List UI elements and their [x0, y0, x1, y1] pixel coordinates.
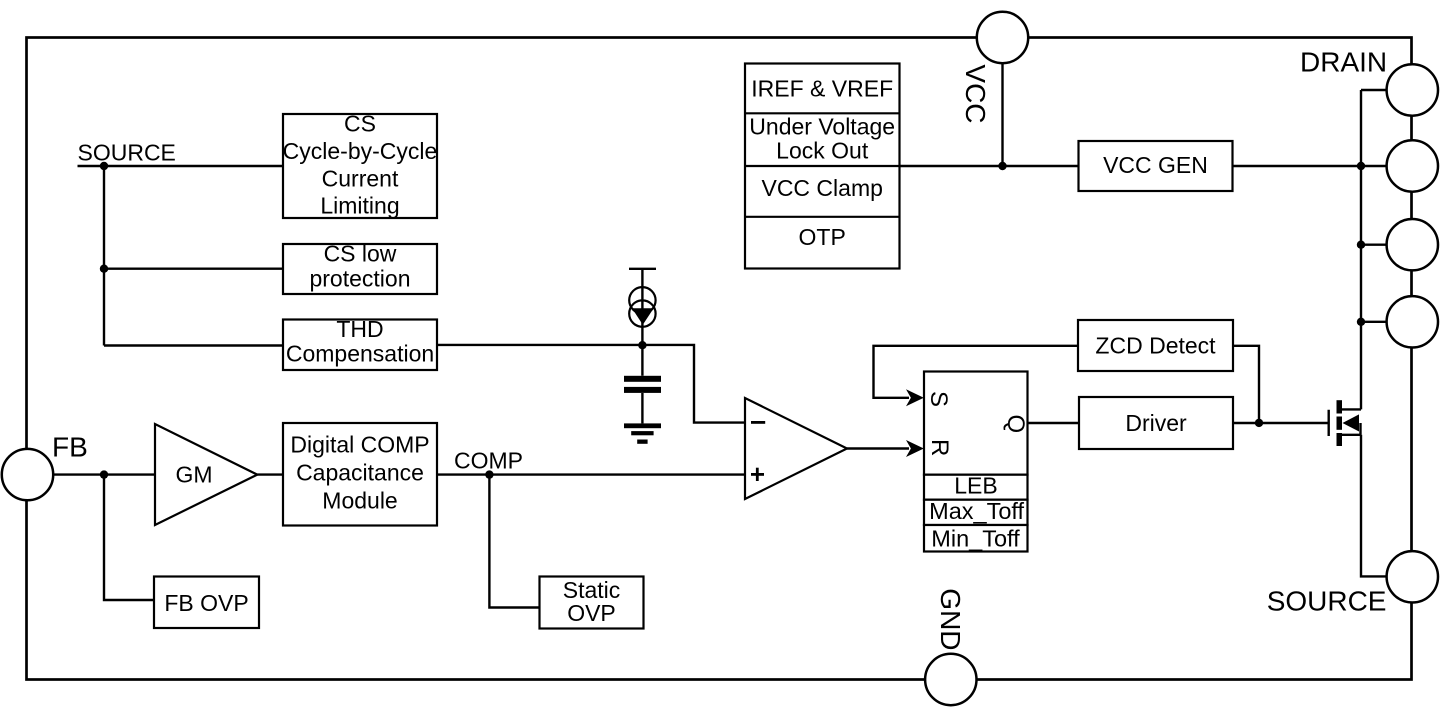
svg-text:Driver: Driver [1125, 410, 1187, 436]
svg-text:OTP: OTP [799, 224, 846, 250]
svg-text:Lock Out: Lock Out [776, 138, 869, 164]
svg-text:OVP: OVP [567, 600, 616, 626]
svg-text:FB OVP: FB OVP [164, 590, 248, 616]
svg-text:IREF & VREF: IREF & VREF [751, 75, 893, 101]
svg-text:Limiting: Limiting [320, 193, 399, 219]
svg-text:Module: Module [322, 488, 397, 514]
svg-text:GND: GND [935, 588, 966, 650]
svg-text:R: R [926, 439, 953, 456]
svg-text:DRAIN: DRAIN [1300, 46, 1387, 77]
svg-text:VCC Clamp: VCC Clamp [761, 175, 882, 201]
svg-text:S: S [925, 391, 952, 407]
svg-text:VCC: VCC [960, 64, 991, 123]
svg-text:COMP: COMP [454, 448, 523, 474]
svg-text:CS: CS [344, 111, 376, 137]
svg-text:Cycle-by-Cycle: Cycle-by-Cycle [283, 138, 438, 164]
svg-text:Compensation: Compensation [286, 340, 434, 366]
svg-text:Q: Q [1002, 415, 1029, 434]
svg-text:THD: THD [336, 316, 383, 342]
svg-text:VCC GEN: VCC GEN [1103, 152, 1208, 178]
svg-text:Digital COMP: Digital COMP [290, 432, 429, 458]
svg-text:LEB: LEB [954, 472, 997, 498]
svg-text:CS low: CS low [324, 240, 397, 266]
svg-text:ZCD Detect: ZCD Detect [1095, 333, 1216, 359]
svg-text:protection: protection [309, 265, 410, 291]
svg-text:SOURCE: SOURCE [1267, 585, 1387, 616]
svg-text:Current: Current [322, 165, 399, 191]
svg-text:Capacitance: Capacitance [296, 460, 424, 486]
svg-text:Max_Toff: Max_Toff [929, 498, 1024, 524]
svg-text:Under Voltage: Under Voltage [749, 114, 895, 140]
svg-text:GM: GM [175, 462, 212, 488]
svg-text:FB: FB [52, 432, 88, 463]
svg-text:SOURCE: SOURCE [78, 140, 176, 166]
svg-text:Min_Toff: Min_Toff [931, 525, 1020, 551]
